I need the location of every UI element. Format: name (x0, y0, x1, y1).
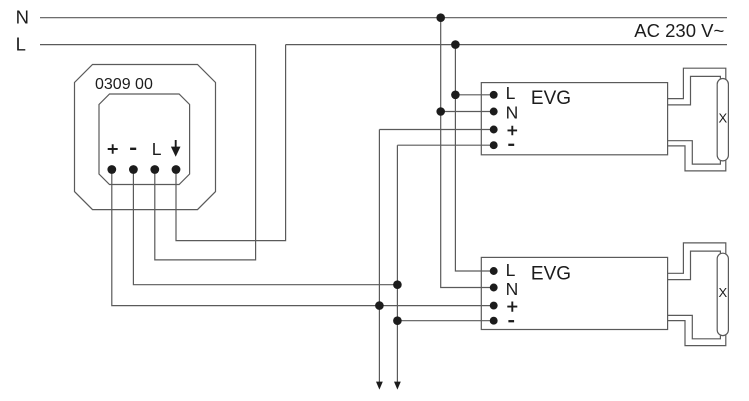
svg-text:0309 00: 0309 00 (95, 76, 153, 93)
svg-text:L: L (152, 139, 162, 159)
svg-text:N: N (16, 7, 29, 28)
svg-text:L: L (16, 34, 26, 55)
svg-text:X: X (718, 110, 727, 125)
svg-text:N: N (506, 103, 519, 123)
svg-text:X: X (718, 285, 727, 300)
svg-text:L: L (506, 260, 516, 280)
svg-text:EVG: EVG (531, 88, 571, 109)
svg-text:N: N (506, 279, 519, 299)
svg-text:AC 230 V~: AC 230 V~ (634, 20, 724, 41)
svg-text:EVG: EVG (531, 263, 571, 284)
svg-text:L: L (506, 83, 516, 103)
